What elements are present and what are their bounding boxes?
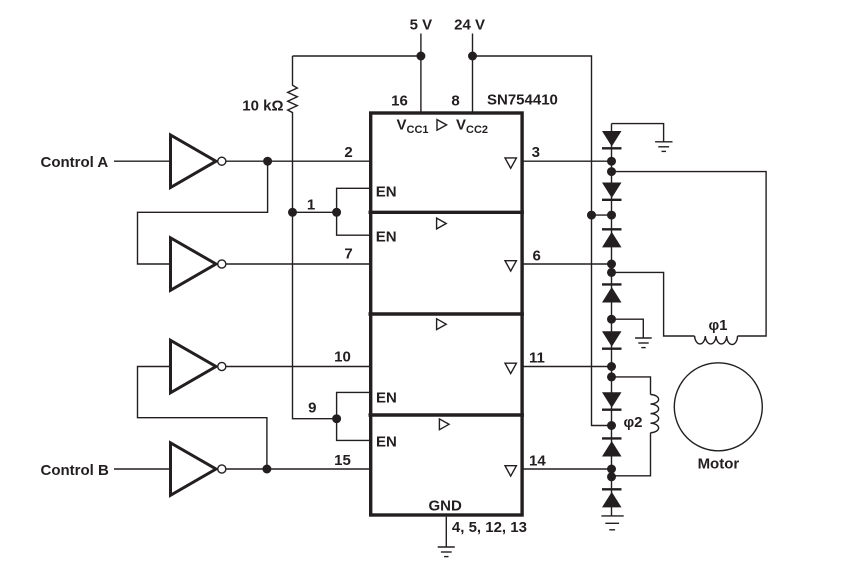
svg-text:14: 14: [529, 453, 546, 470]
IC section divider 3: [369, 413, 524, 416]
diode D8: [602, 488, 622, 490]
wire phase1 left leg: [612, 272, 695, 336]
svg-text:VCC1: VCC1: [397, 117, 429, 137]
svg-text:5 V: 5 V: [410, 17, 433, 34]
node 24V chain dot: [607, 211, 616, 220]
svg-text:φ1: φ1: [708, 317, 727, 334]
node 24V chain dot 2: [607, 421, 616, 430]
diode D4: [602, 283, 622, 285]
wire EN bracket pins 3,4EN: [337, 392, 370, 440]
wire phase2 bottom leg: [612, 433, 651, 476]
buffer mark section 4: [439, 419, 449, 430]
node inverter D output dot: [262, 465, 271, 474]
wire Control B input: [114, 468, 171, 470]
node pin6 dot: [607, 260, 616, 269]
svg-text:Motor: Motor: [698, 456, 740, 473]
svg-text:EN: EN: [376, 390, 397, 407]
svg-text:4, 5, 12, 13: 4, 5, 12, 13: [452, 519, 527, 536]
svg-text:7: 7: [344, 246, 352, 263]
output mark pin 3: [505, 158, 516, 168]
svg-text:EN: EN: [376, 184, 397, 201]
wire feedback B to inverter C: [138, 367, 267, 470]
inverter U1B: [171, 238, 217, 290]
diode D7: [602, 437, 622, 439]
ground G1: [655, 141, 672, 143]
wire phase1 right leg: [612, 172, 767, 336]
svg-text:2: 2: [344, 144, 352, 161]
node pin11 dot: [607, 362, 616, 371]
svg-text:VCC2: VCC2: [456, 117, 488, 137]
output mark pin 11: [505, 363, 516, 373]
svg-text:9: 9: [308, 400, 316, 417]
wire inverter C out to pin 10: [226, 366, 370, 368]
IC U1 SN754410 outline: [371, 113, 522, 515]
inverter U1C: [171, 340, 217, 393]
wire pin 14 to chain: [523, 468, 612, 470]
wire resistor to EN34 junction: [293, 212, 337, 418]
motor M1 circle: [674, 363, 762, 451]
node inverter A output dot: [263, 157, 272, 166]
node 24V tap dot left: [587, 211, 596, 220]
wire node 1 to EN bracket: [293, 211, 337, 213]
node EN34 bracket dot: [332, 414, 341, 423]
node ground2 dot: [607, 315, 616, 324]
wire 5V stem: [420, 34, 422, 113]
resistor R1 10 kOhm: [288, 56, 298, 212]
diode D2: [602, 183, 622, 199]
diode D6: [602, 392, 622, 408]
wire diode chain vertical: [611, 124, 613, 516]
buffer mark VCC row: [437, 120, 447, 131]
wire inverter B out to pin 7: [226, 263, 370, 265]
buffer mark section 2: [437, 218, 447, 229]
node pin11 phase tap dot: [607, 372, 616, 381]
svg-text:24 V: 24 V: [454, 17, 485, 34]
node R1/EN12 junction dot: [288, 208, 297, 217]
ground G2: [635, 337, 652, 339]
node pin14 dot: [607, 465, 616, 474]
wire GND stem: [445, 517, 447, 547]
svg-text:EN: EN: [376, 434, 397, 451]
wire 24V rail right and down: [473, 56, 612, 426]
svg-text:φ2: φ2: [623, 414, 642, 431]
svg-text:GND: GND: [429, 498, 463, 515]
svg-text:Control A: Control A: [41, 154, 109, 171]
inductor phi1: [695, 336, 738, 345]
svg-text:11: 11: [529, 350, 545, 367]
svg-text:8: 8: [451, 93, 459, 110]
inverter U1D: [171, 443, 217, 496]
wire to ground 2: [612, 319, 644, 338]
IC section divider 1: [369, 211, 524, 214]
wire feedback A to inverter B: [138, 161, 268, 264]
node pin3 phase tap dot: [607, 167, 616, 176]
svg-text:10: 10: [334, 349, 351, 366]
wire chain top to ground 1: [612, 124, 664, 142]
node pin6 phase tap dot: [607, 268, 616, 277]
IC section divider 2: [369, 312, 524, 315]
node EN12 bracket dot: [332, 208, 341, 217]
wire 5V rail to resistor: [293, 55, 421, 57]
wire pin 11 to chain: [523, 366, 612, 368]
diode D3: [602, 228, 622, 230]
node 5V junction dot: [416, 52, 425, 61]
wire pin 3 to chain: [523, 160, 612, 162]
svg-text:Control B: Control B: [41, 462, 109, 479]
svg-text:1: 1: [307, 197, 315, 214]
inductor phi2: [651, 395, 659, 433]
diode D5: [602, 331, 622, 347]
node pin14 phase tap dot: [607, 472, 616, 481]
output mark pin 14: [505, 466, 516, 476]
wire 24V stem: [472, 34, 474, 113]
wire Control A input: [114, 160, 171, 162]
output mark pin 6: [505, 261, 516, 271]
wire inverter A out to pin 2: [226, 160, 370, 162]
wire EN bracket pins 1,2EN: [337, 188, 370, 235]
diode D1: [602, 131, 622, 147]
wire inverter D out to pin 15: [226, 468, 370, 470]
svg-text:SN754410: SN754410: [487, 92, 558, 109]
buffer mark section 3: [437, 319, 447, 330]
svg-text:16: 16: [391, 93, 408, 110]
ground G3: [601, 515, 623, 517]
svg-text:15: 15: [334, 452, 351, 469]
node pin3 dot: [607, 157, 616, 166]
wire phase2 top leg: [612, 377, 651, 395]
ground IC: [438, 546, 455, 548]
svg-text:EN: EN: [376, 229, 397, 246]
node 24V junction dot: [468, 52, 477, 61]
svg-text:6: 6: [533, 248, 541, 265]
wire 24V tap to diode chain node: [592, 214, 612, 216]
inverter U1A: [171, 135, 217, 188]
svg-text:3: 3: [532, 144, 540, 161]
wire pin 6 to chain: [523, 263, 612, 265]
svg-text:10 kΩ: 10 kΩ: [242, 98, 283, 115]
